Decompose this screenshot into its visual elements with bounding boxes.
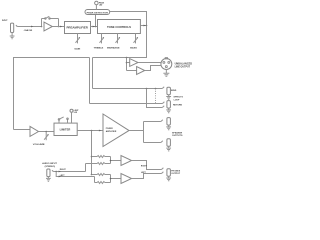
svg-text:RIGHT: RIGHT	[141, 166, 148, 168]
svg-text:AMPLIFIER: AMPLIFIER	[106, 130, 117, 133]
jack SPEAKER 2	[167, 139, 171, 147]
potentiometer VOLUME	[45, 132, 47, 141]
wire audio input split	[52, 170, 85, 171]
svg-text:GAIN: GAIN	[74, 47, 80, 50]
wire bus from tone out down and left	[93, 26, 147, 58]
potentiometer BASS	[134, 34, 138, 44]
wire tone out	[140, 25, 146, 27]
svg-text:RIGHT: RIGHT	[60, 169, 67, 171]
svg-text:OUTPUTS: OUTPUTS	[172, 135, 183, 137]
input jack J1	[11, 23, 14, 32]
svg-text:VOLUME: VOLUME	[33, 144, 45, 146]
wire feedback left leg	[41, 19, 43, 27]
wire aux right riser	[85, 164, 87, 172]
jack SEND	[167, 87, 171, 95]
op-amp U2A (line driver +)	[130, 59, 138, 67]
jack RETURN	[167, 101, 171, 109]
resistor R2 (aux right)	[97, 163, 105, 165]
switch S2 (limiter bypass)	[59, 120, 68, 124]
svg-text:PEAK DETECTOR: PEAK DETECTOR	[87, 11, 109, 14]
LED LIMIT	[70, 109, 73, 112]
wire to op-amp B	[127, 70, 137, 72]
svg-text:TONE CONTROLS: TONE CONTROLS	[107, 26, 131, 29]
op-amp U3 (volume buffer)	[30, 126, 39, 136]
wire to op-amp A	[127, 62, 130, 64]
svg-text:(STEREO): (STEREO)	[45, 166, 56, 168]
svg-text:LED: LED	[74, 112, 78, 114]
wire U1 out to preamp	[52, 26, 64, 28]
op-amp U2B (line driver -)	[137, 67, 145, 75]
svg-text:MIDRANGE: MIDRANGE	[107, 47, 120, 50]
jack PHONES	[167, 169, 171, 177]
wire peak detector to bus	[110, 12, 147, 26]
wire loop to volume amp	[14, 129, 31, 131]
wire send	[93, 88, 163, 90]
ground (XLR shell)	[163, 69, 169, 76]
power amplifier	[103, 114, 129, 147]
resistor R3 (mono to left)	[97, 174, 105, 176]
wire input to pad	[16, 25, 41, 27]
wire B out to XLR	[145, 66, 161, 71]
svg-text:INPUT: INPUT	[2, 20, 8, 22]
svg-text:LINE OUTPUT: LINE OUTPUT	[175, 67, 191, 69]
connector XLR line output	[161, 59, 172, 70]
svg-text:-15dB PAD: -15dB PAD	[23, 29, 32, 32]
LED PEAK	[95, 1, 99, 5]
wire A out to XLR	[138, 62, 161, 64]
svg-text:SPEAKER: SPEAKER	[172, 131, 183, 134]
op-amp U4 (phones right)	[121, 156, 132, 166]
resistor R1 (mono to right)	[97, 156, 105, 158]
wire left mix	[92, 175, 122, 183]
peak detector block	[85, 10, 110, 15]
wire phones left out	[132, 174, 162, 179]
jack AUDIO INPUT	[47, 169, 50, 177]
wire send drop	[92, 58, 94, 89]
svg-text:OUTPUT: OUTPUT	[171, 173, 180, 175]
wire tap to peak detector	[95, 15, 97, 27]
wire feedback top	[42, 18, 59, 20]
potentiometer MIDRANGE	[116, 34, 120, 44]
wire preamp to tone controls	[91, 26, 98, 28]
preamplifier block	[65, 22, 91, 34]
wire limiter to power amp	[77, 130, 103, 132]
wire phones right out	[132, 161, 162, 170]
ground (input jack)	[10, 33, 15, 39]
op-amp U5 (phones left)	[121, 174, 132, 184]
wire feedback right leg	[58, 19, 60, 27]
wire return riser	[89, 58, 91, 104]
svg-text:PREAMPLIFIER: PREAMPLIFIER	[67, 27, 89, 30]
svg-text:LED: LED	[99, 4, 103, 6]
wire normal dotted	[155, 89, 157, 104]
svg-text:AUDIO INPUT: AUDIO INPUT	[42, 162, 57, 165]
junction line-driver tap	[126, 57, 128, 59]
switch S1 (pad bypass)	[45, 18, 46, 19]
resistor R4 (aux left)	[97, 182, 105, 184]
svg-text:TREBLE: TREBLE	[94, 48, 104, 50]
wire right mix	[86, 157, 122, 164]
potentiometer TREBLE	[100, 34, 104, 44]
tone controls block	[98, 20, 141, 34]
potentiometer GAIN	[77, 34, 79, 44]
wire speaker bracket	[144, 122, 161, 143]
svg-text:BASS: BASS	[130, 47, 137, 50]
wire PA out to speaker bracket	[129, 130, 144, 132]
svg-text:LOOP: LOOP	[174, 99, 180, 101]
limiter block	[54, 123, 77, 135]
svg-text:LIMITER: LIMITER	[60, 129, 71, 132]
svg-text:UNBALANCED: UNBALANCED	[175, 62, 193, 65]
wire U3 out to limiter	[39, 131, 55, 133]
op-amp U1 (input buffer)	[44, 22, 52, 31]
arrow on input wire	[31, 26, 33, 28]
wire normal send-to-return	[147, 89, 163, 108]
svg-text:LEFT: LEFT	[141, 172, 147, 174]
wire bus left segment to volume loop	[14, 58, 90, 130]
wire mono feed to phones mixer	[91, 131, 93, 175]
ground (audio input jack)	[46, 177, 51, 182]
wire aux left drop	[94, 177, 96, 183]
svg-text:RETURN: RETURN	[173, 105, 182, 107]
wire return	[90, 103, 163, 105]
node A junction	[41, 26, 43, 28]
svg-text:SEND: SEND	[171, 90, 177, 92]
jack SPEAKER 1	[167, 118, 171, 126]
svg-text:LEFT: LEFT	[60, 175, 66, 177]
